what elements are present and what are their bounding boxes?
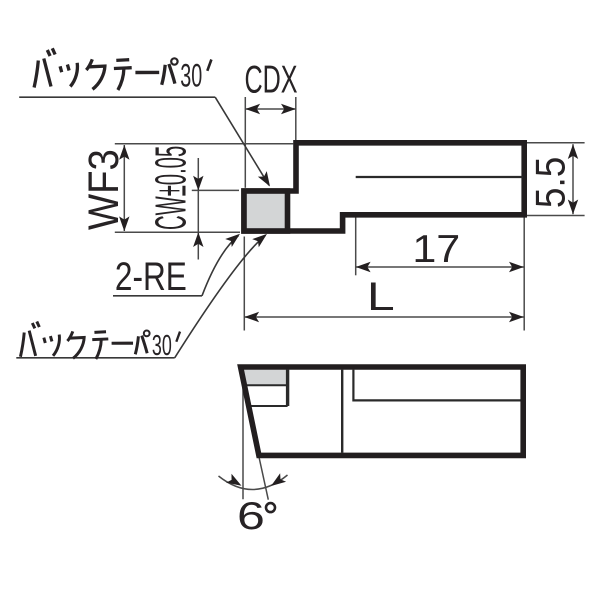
svg-text:L: L <box>367 274 395 319</box>
svg-text:CW±0.05: CW±0.05 <box>147 146 196 230</box>
svg-text:2-RE: 2-RE <box>115 254 187 298</box>
svg-text:30: 30 <box>152 330 172 362</box>
svg-text:WF3: WF3 <box>79 149 128 230</box>
svg-text:CDX: CDX <box>244 58 297 101</box>
svg-text:5.5: 5.5 <box>527 157 573 208</box>
svg-text:17: 17 <box>412 227 460 270</box>
svg-text:30: 30 <box>180 57 202 93</box>
svg-text:6: 6 <box>237 496 265 538</box>
